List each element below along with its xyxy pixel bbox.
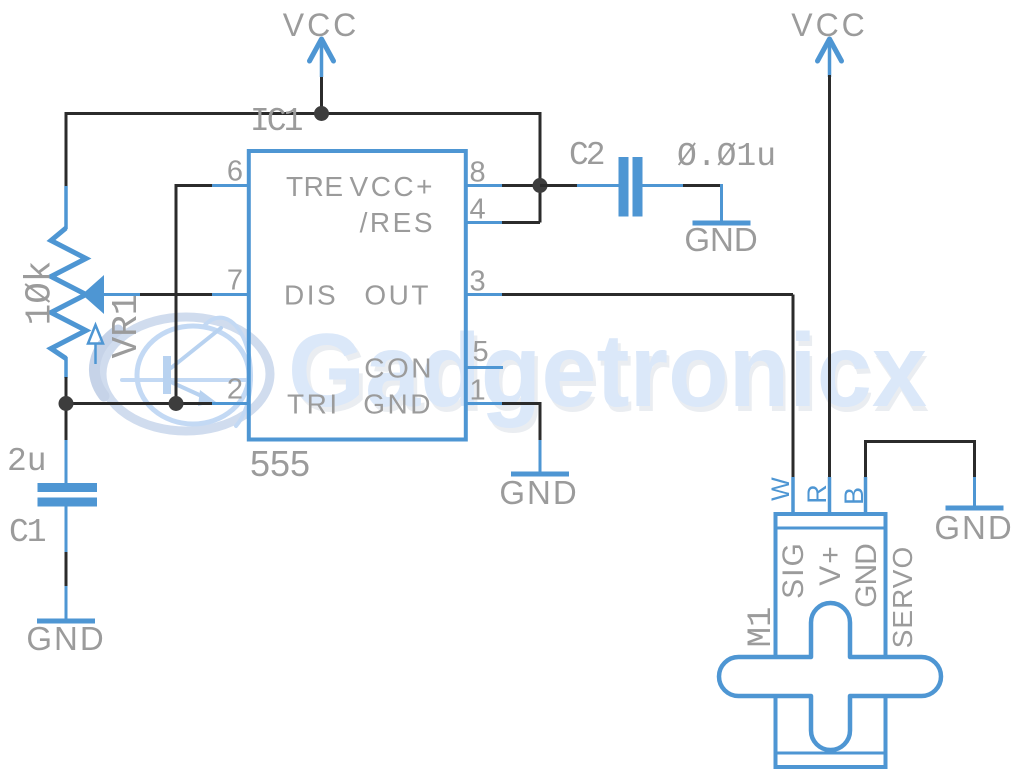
potentiometer wiper triangle <box>82 275 104 314</box>
servo pin stub R <box>828 477 832 516</box>
ground symbol C1 <box>37 619 95 624</box>
svg-text:B: B <box>839 487 869 505</box>
wire: pin 1 horizontal black <box>502 402 540 405</box>
svg-text:6: 6 <box>227 156 243 188</box>
junction dot pin2 node <box>169 396 184 411</box>
svg-text:GND: GND <box>26 620 105 657</box>
svg-text:1: 1 <box>470 375 486 407</box>
pin 8 stub <box>466 184 503 187</box>
wire: C1 bottom lead <box>65 506 68 552</box>
servo bottom line <box>776 752 886 755</box>
svg-text:2u: 2u <box>7 443 47 480</box>
pin 2 stub <box>212 402 247 405</box>
svg-text:VR1: VR1 <box>106 294 147 359</box>
VCC symbol 2 <box>818 39 842 77</box>
potentiometer VR1 zigzag body <box>51 228 86 359</box>
ground symbol C2 <box>693 221 751 226</box>
wire: pin 1 vertical black <box>539 402 542 441</box>
op IC U1 555 box <box>249 151 466 440</box>
servo pin stub B <box>864 477 868 516</box>
servo horn cross <box>719 603 941 750</box>
wire: resistor bottom to C1 <box>65 377 68 441</box>
svg-text:/RES: /RES <box>360 207 435 238</box>
wire: junction to C2 black <box>540 184 578 187</box>
ground symbol pin1 <box>511 472 569 477</box>
svg-text:SIG: SIG <box>777 541 810 599</box>
svg-text:C1: C1 <box>9 514 46 551</box>
svg-text:TRE: TRE <box>286 171 344 202</box>
capacitor C2 plates <box>619 157 643 217</box>
VCC symbol 1 <box>310 39 334 77</box>
wire: C1 top lead blue <box>65 440 68 484</box>
wire: bottom node horizontal <box>66 402 213 405</box>
servo M1 body <box>776 514 886 767</box>
wire: pin 3 OUT horizontal <box>502 293 793 296</box>
svg-text:CON: CON <box>364 353 434 384</box>
pin 6 stub <box>212 184 247 187</box>
svg-text:SERVO: SERVO <box>887 546 918 649</box>
svg-text:GND: GND <box>684 221 757 258</box>
potentiometer VR1 top lead <box>64 186 68 229</box>
wire: wiper stub blue <box>102 293 140 296</box>
svg-text:V+: V+ <box>814 544 847 586</box>
wire: B to GND horizontal <box>864 440 976 443</box>
wire: C2 right lead blue <box>642 184 684 187</box>
pin 4 stub <box>466 221 503 224</box>
svg-text:2: 2 <box>227 374 243 406</box>
svg-text:IC1: IC1 <box>250 103 303 140</box>
junction dot top <box>314 106 329 121</box>
svg-text:GND: GND <box>499 474 578 511</box>
svg-text:Ø.Ø1u: Ø.Ø1u <box>677 138 776 175</box>
wire: GND2 lead blue <box>720 184 723 221</box>
wire: C2 left lead blue <box>577 184 619 187</box>
svg-text:M1: M1 <box>743 607 781 648</box>
wire: C1 to GND black segment <box>65 552 68 586</box>
wire: GND4 lead blue <box>973 477 976 506</box>
wire: pin 8 to junction <box>502 184 540 187</box>
junction dot bottom left <box>59 396 74 411</box>
svg-text:VCC: VCC <box>283 7 360 43</box>
wire: GND4 vertical black <box>973 440 976 478</box>
wire: wiper to pin 7 <box>140 293 213 296</box>
wire: GND lead blue <box>65 586 68 620</box>
svg-text:C2: C2 <box>569 137 604 174</box>
svg-text:GND: GND <box>850 544 883 608</box>
pin 5 stub <box>466 366 503 369</box>
svg-text:1Øk: 1Øk <box>20 261 61 326</box>
potentiometer VR1 bottom lead <box>64 357 68 378</box>
servo header line top <box>776 527 886 530</box>
svg-text:4: 4 <box>470 194 486 226</box>
ground symbol servo B <box>946 506 1004 511</box>
pin 7 stub <box>212 293 247 296</box>
wire: servo B vertical black <box>864 442 867 479</box>
wire: pin1 GND lead blue <box>539 440 542 472</box>
pin 1 stub <box>466 402 503 405</box>
junction dot pins 8/4 <box>533 178 548 193</box>
svg-text:OUT: OUT <box>364 280 431 311</box>
wire: pin 4 to junction <box>502 221 540 224</box>
svg-text:5: 5 <box>473 336 489 368</box>
svg-text:GND: GND <box>934 509 1013 546</box>
wire: top horizontal bus <box>66 112 540 115</box>
svg-text:555: 555 <box>250 443 310 484</box>
svg-text:DIS: DIS <box>284 280 338 311</box>
wire: VCC1 stem <box>320 75 323 114</box>
servo pin stub W <box>791 477 795 516</box>
wire: left vertical to potentiometer <box>65 112 68 187</box>
wire: pin 6 to pin 2 vertical <box>175 184 178 404</box>
capacitor C1 plates <box>38 483 98 507</box>
wire: right vertical to pins 8/4 <box>539 112 542 223</box>
svg-text:R: R <box>802 484 832 504</box>
wire: OUT vertical to servo W <box>792 295 795 479</box>
svg-text:8: 8 <box>470 157 486 189</box>
watermark logo globe <box>94 317 270 431</box>
svg-text:3: 3 <box>470 266 486 298</box>
svg-text:7: 7 <box>227 265 243 297</box>
pin 3 stub <box>466 293 503 296</box>
wire: VCC2 vertical to servo R <box>828 75 831 478</box>
svg-text:TRI: TRI <box>287 389 340 420</box>
svg-text:GND: GND <box>363 389 433 420</box>
wire: C2 to GND corner black <box>683 184 723 187</box>
svg-text:W: W <box>767 477 795 501</box>
svg-text:VCC+: VCC+ <box>350 171 435 202</box>
potentiometer adjust arrow <box>88 325 103 364</box>
svg-text:VCC: VCC <box>791 7 868 43</box>
wire: pin 6 horizontal black <box>176 184 213 187</box>
